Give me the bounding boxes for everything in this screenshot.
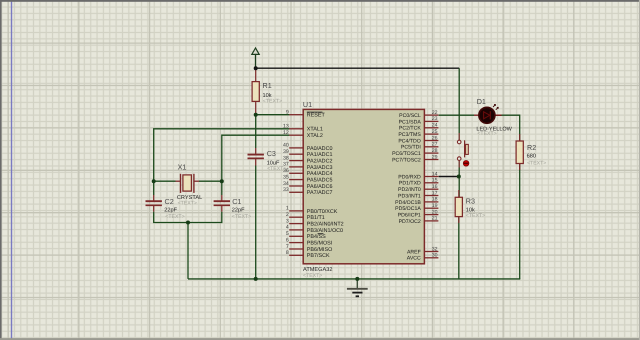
pin 27 PC5/TDI (right) <box>401 142 438 151</box>
pin 25 PC3/TMS (right) <box>398 129 438 138</box>
pin 17 PD3/INT1 (right) <box>398 190 438 199</box>
svg-text:5: 5 <box>286 231 289 237</box>
pin 24 PC2/TCK (right) <box>399 123 439 132</box>
resistor R1 <box>252 68 259 115</box>
pin 36 PA4/ADC4 (left) <box>283 168 332 177</box>
svg-text:19: 19 <box>432 203 438 209</box>
svg-text:X1: X1 <box>178 162 187 171</box>
svg-text:PB1/T1: PB1/T1 <box>307 215 325 221</box>
wire C2 bottom and C1 bottom joining link <box>154 206 222 223</box>
svg-text:12: 12 <box>283 130 289 136</box>
svg-text:26: 26 <box>432 135 438 141</box>
svg-text:25: 25 <box>432 129 438 135</box>
pin 39 PA1/ADC1 (left) <box>283 149 332 158</box>
svg-text:21: 21 <box>432 216 438 222</box>
label R1 <box>263 81 283 105</box>
svg-text:PB3/AIN1/OC0: PB3/AIN1/OC0 <box>307 228 343 234</box>
pin 6 PB5/MOSI (left) <box>286 237 332 246</box>
svg-text:33: 33 <box>283 187 289 193</box>
wire RESET node down to C3 top <box>255 115 257 155</box>
svg-text:18: 18 <box>432 197 438 203</box>
svg-text:PA0/ADC0: PA0/ADC0 <box>307 146 333 152</box>
svg-text:PC3/TMS: PC3/TMS <box>398 132 421 138</box>
pin 20 PD6/ICP1 (right) <box>398 209 439 218</box>
node PD0 button junction <box>457 175 461 179</box>
pin 2 PB1/T1 (left) <box>286 212 325 221</box>
resistor R3 <box>455 190 462 223</box>
label X1 <box>177 162 202 206</box>
svg-text:9: 9 <box>286 110 289 116</box>
pin 21 PD7/OC2 (right) <box>399 216 439 225</box>
node RESET junction <box>254 113 258 117</box>
pin 32 AREF (right) <box>407 246 438 255</box>
wire LED cathode to R2 top <box>495 115 520 141</box>
pin 22 PC0/SCL (right) <box>399 110 438 119</box>
label C2 <box>164 197 184 220</box>
svg-text:7: 7 <box>286 244 289 250</box>
resistor R2 <box>516 134 523 170</box>
pin 13 XTAL1 (left) <box>283 124 323 133</box>
pin 8 PB7/SCK (left) <box>286 250 330 259</box>
svg-text:PD5/OC1A: PD5/OC1A <box>395 206 421 212</box>
svg-text:PB0/T0/XCK: PB0/T0/XCK <box>307 209 338 215</box>
svg-text:32: 32 <box>432 246 438 252</box>
svg-text:PA1/ADC1: PA1/ADC1 <box>307 152 333 158</box>
svg-text:4: 4 <box>286 225 289 231</box>
pin 18 PD4/OC1B (right) <box>395 197 438 206</box>
node ground bus junction <box>355 277 359 281</box>
svg-text:<TEXT>: <TEXT> <box>303 273 322 279</box>
svg-text:<TEXT>: <TEXT> <box>232 214 251 220</box>
sheet border (blue) <box>11 2 13 340</box>
svg-text:29: 29 <box>432 154 438 160</box>
svg-text:U1: U1 <box>303 100 312 109</box>
svg-text:PD0/RXD: PD0/RXD <box>398 174 421 180</box>
label R2 <box>527 143 547 166</box>
ground <box>347 279 368 296</box>
svg-text:24: 24 <box>432 123 438 129</box>
svg-text:1: 1 <box>286 206 289 212</box>
pin 1 PB0/T0/XCK (left) <box>286 206 338 215</box>
pin 15 PD1/TXD (right) <box>399 178 439 187</box>
svg-text:R2: R2 <box>527 143 536 152</box>
svg-text:<TEXT>: <TEXT> <box>477 131 496 137</box>
pin 14 PD0/RXD (right) <box>398 171 438 180</box>
pin 40 PA0/ADC0 (left) <box>283 143 332 152</box>
svg-text:2: 2 <box>286 212 289 218</box>
pin 12 XTAL2 (left) <box>283 130 323 139</box>
label R3 <box>466 197 485 219</box>
svg-text:C1: C1 <box>232 197 241 206</box>
svg-text:AREF: AREF <box>407 249 421 255</box>
svg-text:PB4/SS: PB4/SS <box>307 234 326 240</box>
node crystal left junction <box>152 179 156 183</box>
pin 30 AVCC (right) <box>407 253 439 262</box>
capacitor C1 <box>214 201 230 205</box>
svg-text:20: 20 <box>432 209 438 215</box>
svg-text:D1: D1 <box>477 97 486 106</box>
svg-text:PD3/INT1: PD3/INT1 <box>398 193 421 199</box>
label C1 <box>232 197 251 220</box>
svg-text:XTAL1: XTAL1 <box>307 127 323 133</box>
svg-text:PD6/ICP1: PD6/ICP1 <box>398 213 421 219</box>
svg-text:16: 16 <box>432 184 438 190</box>
svg-text:PC6/TOSC1: PC6/TOSC1 <box>392 151 421 157</box>
svg-text:PA6/ADC6: PA6/ADC6 <box>307 184 333 190</box>
svg-text:PA3/ADC3: PA3/ADC3 <box>307 165 333 171</box>
svg-text:PC7/TOSC2: PC7/TOSC2 <box>392 157 421 163</box>
svg-text:35: 35 <box>283 174 289 180</box>
svg-text:14: 14 <box>432 171 438 177</box>
svg-text:PB6/MISO: PB6/MISO <box>307 247 332 253</box>
wire PD0/RXD pin 14 to button column <box>439 176 460 178</box>
push button <box>457 133 469 168</box>
wire ground bus <box>188 278 520 280</box>
wire XTAL2 pin 12 to crystal right column <box>222 135 290 201</box>
pin 19 PD5/OC1A (right) <box>395 203 438 212</box>
svg-text:RESET: RESET <box>307 113 326 119</box>
wire RESET net R1 bottom to pin 9 <box>256 114 290 116</box>
svg-text:PC2/TCK: PC2/TCK <box>399 126 421 132</box>
wire button column vertical VCC down to button top <box>458 68 460 140</box>
pin 5 PB4/SS (left) <box>286 231 326 240</box>
svg-text:22: 22 <box>432 110 438 116</box>
pin 35 PA5/ADC5 (left) <box>283 174 332 183</box>
svg-text:15: 15 <box>432 178 438 184</box>
wire PC0/SCL pin 22 to LED anode <box>439 114 474 116</box>
pin 23 PC1/SDA (right) <box>399 116 439 125</box>
svg-text:PD7/OC2: PD7/OC2 <box>399 219 421 225</box>
pin 28 PC6/TOSC1 (right) <box>392 148 438 157</box>
node C3 bus junction <box>254 277 258 281</box>
svg-text:22pF: 22pF <box>164 207 177 213</box>
svg-text:PC1/SDA: PC1/SDA <box>399 119 422 125</box>
svg-text:30: 30 <box>432 253 438 259</box>
node caps ground junction <box>186 221 190 225</box>
pin 37 PA3/ADC3 (left) <box>283 162 332 171</box>
svg-text:<TEXT>: <TEXT> <box>165 214 184 220</box>
label U1 refdes <box>303 100 312 109</box>
pin 34 PA6/ADC6 (left) <box>283 181 332 190</box>
chip U1 ATMEGA32 body <box>303 109 424 263</box>
svg-text:PA4/ADC4: PA4/ADC4 <box>307 171 333 177</box>
svg-text:C3: C3 <box>267 149 276 158</box>
node VCC junction <box>254 66 258 70</box>
svg-text:8: 8 <box>286 250 289 256</box>
svg-text:<TEXT>: <TEXT> <box>466 213 485 219</box>
pin 4 PB3/AIN1/OC0 (left) <box>286 225 343 234</box>
wire C3 bottom to ground bus <box>255 158 257 279</box>
node crystal right junction <box>220 179 224 183</box>
svg-text:PC4/TDO: PC4/TDO <box>398 138 420 144</box>
svg-text:PD4/OC1B: PD4/OC1B <box>395 200 421 206</box>
svg-text:34: 34 <box>283 181 289 187</box>
svg-text:PA5/ADC5: PA5/ADC5 <box>307 178 333 184</box>
wire VCC horizontal to button column <box>256 67 460 69</box>
svg-text:PC5/TDI: PC5/TDI <box>401 145 421 151</box>
svg-text:40: 40 <box>283 143 289 149</box>
pin 26 PC4/TDO (right) <box>398 135 438 144</box>
svg-text:3: 3 <box>286 218 289 224</box>
svg-text:<TEXT>: <TEXT> <box>178 201 197 207</box>
wire XTAL1 pin 13 to crystal left column <box>154 129 290 201</box>
pin 3 PB2/AIN0/INT2 (left) <box>286 218 344 227</box>
svg-text:28: 28 <box>432 148 438 154</box>
svg-text:6: 6 <box>286 237 289 243</box>
LED D1 <box>474 105 502 124</box>
label D1 <box>476 97 512 137</box>
svg-text:PA2/ADC2: PA2/ADC2 <box>307 159 333 165</box>
svg-text:17: 17 <box>432 190 438 196</box>
wire caps midpoint down to ground bus <box>187 223 189 279</box>
pin 38 PA2/ADC2 (left) <box>283 155 332 164</box>
pin 9 RESET (left) <box>286 110 326 119</box>
svg-text:38: 38 <box>283 155 289 161</box>
svg-text:<TEXT>: <TEXT> <box>267 166 286 172</box>
svg-text:22pF: 22pF <box>232 207 245 213</box>
capacitor C2 <box>146 201 162 205</box>
svg-text:AVCC: AVCC <box>407 256 421 262</box>
svg-text:R3: R3 <box>466 197 475 206</box>
svg-text:PB5/MOSI: PB5/MOSI <box>307 241 332 247</box>
pin 33 PA7/ADC7 (left) <box>283 187 332 196</box>
svg-text:27: 27 <box>432 142 438 148</box>
svg-text:PA7/ADC7: PA7/ADC7 <box>307 190 333 196</box>
svg-text:<TEXT>: <TEXT> <box>527 160 546 166</box>
wire R3 bottom to ground bus <box>458 217 460 279</box>
svg-text:PD1/TXD: PD1/TXD <box>399 181 421 187</box>
svg-text:C2: C2 <box>165 197 174 206</box>
svg-text:13: 13 <box>283 124 289 130</box>
svg-text:<TEXT>: <TEXT> <box>263 99 282 105</box>
pin 16 PD2/INT0 (right) <box>398 184 438 193</box>
wire button bottom to PD0 junction and R3 top <box>458 160 460 197</box>
svg-text:XTAL2: XTAL2 <box>307 133 323 139</box>
pin 7 PB6/MISO (left) <box>286 244 332 253</box>
svg-text:23: 23 <box>432 116 438 122</box>
svg-text:PB2/AIN0/INT2: PB2/AIN0/INT2 <box>307 222 344 228</box>
power symbol VCC arrow <box>252 48 259 68</box>
crystal X1 <box>154 174 222 193</box>
svg-text:39: 39 <box>283 149 289 155</box>
svg-text:PB7/SCK: PB7/SCK <box>307 253 330 259</box>
svg-text:PC0/SCL: PC0/SCL <box>399 113 421 119</box>
label ATMEGA32 value <box>303 267 332 279</box>
capacitor C3 <box>248 155 264 159</box>
svg-text:PD2/INT0: PD2/INT0 <box>398 187 421 193</box>
svg-text:R1: R1 <box>263 81 272 90</box>
pin 29 PC7/TOSC2 (right) <box>392 154 438 163</box>
svg-text:680: 680 <box>527 154 536 160</box>
label C3 <box>267 149 287 172</box>
wire R2 bottom to ground bus <box>519 164 521 279</box>
